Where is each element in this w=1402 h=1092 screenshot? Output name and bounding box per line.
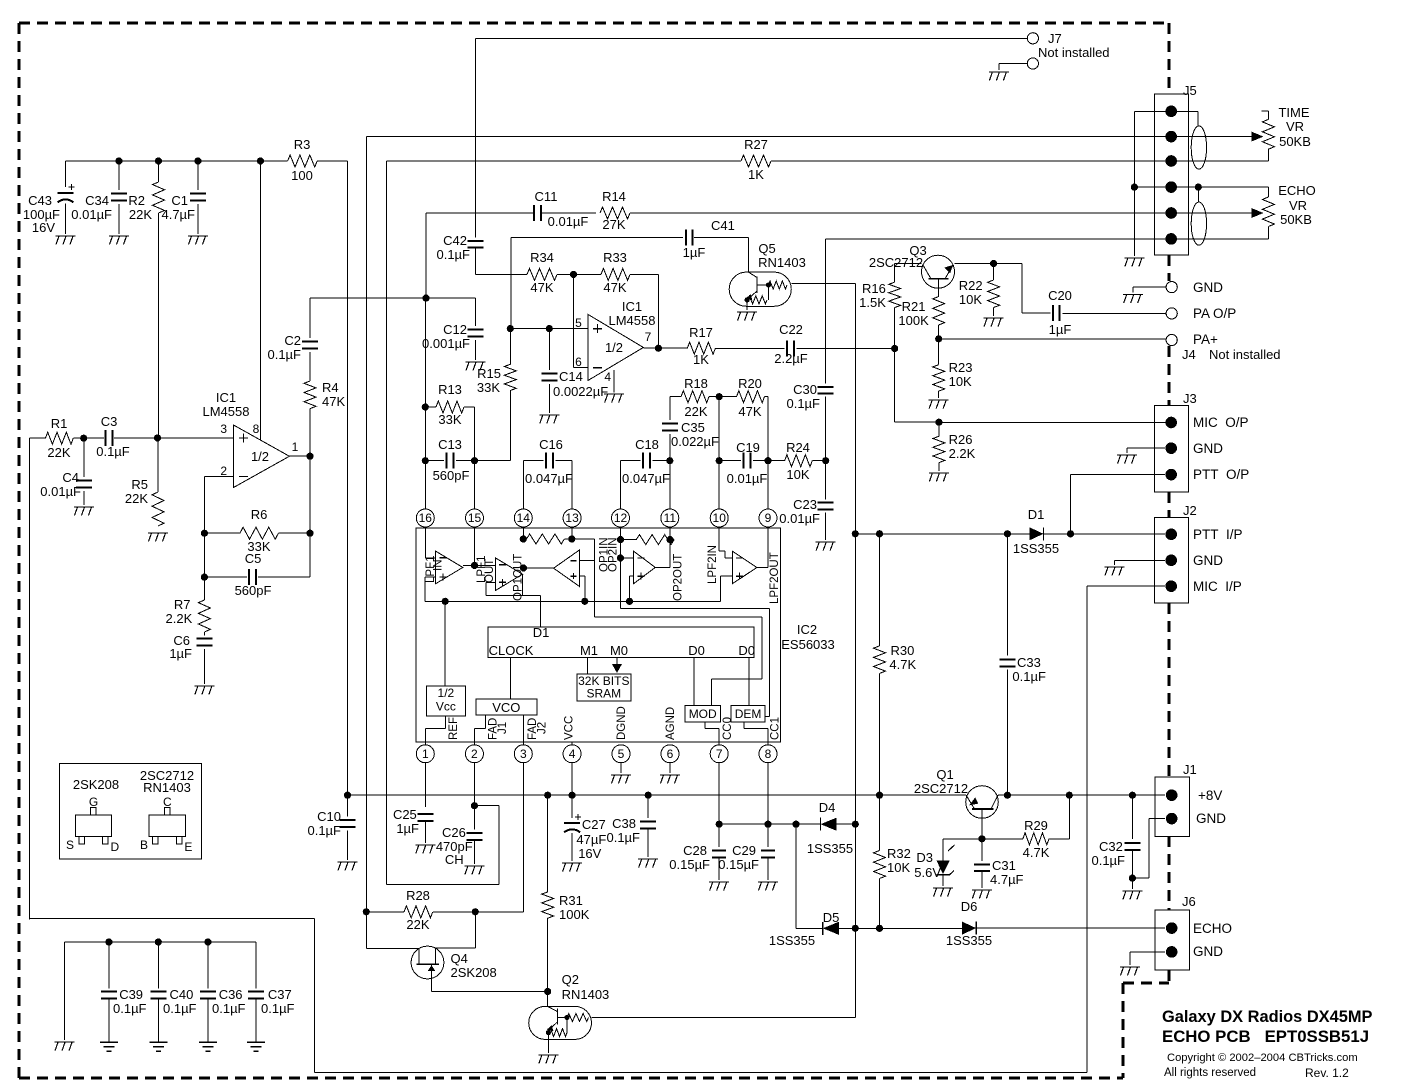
svg-text:OP2IN: OP2IN [608, 537, 620, 572]
svg-text:0.15µF: 0.15µF [718, 857, 759, 872]
wire +in line [510, 328, 588, 330]
border dashed right segment above J5 [1168, 23, 1171, 94]
wire Q1 base drop [981, 818, 983, 839]
wire amp3 -in feed [572, 539, 595, 617]
svg-text:14: 14 [517, 511, 531, 525]
wire pin16 column [424, 298, 426, 510]
wire R1 left corner [29, 438, 45, 919]
svg-text:100K: 100K [898, 313, 929, 328]
resistor R16 [859, 281, 901, 310]
wire R17 to C22 [715, 348, 784, 350]
svg-text:R34: R34 [530, 250, 554, 265]
svg-text:VCO: VCO [492, 700, 520, 715]
wire D0b to DEM [748, 658, 750, 706]
ground below C25 [415, 845, 435, 854]
svg-text:+8V: +8V [1198, 788, 1222, 803]
ground below C28 [709, 882, 729, 891]
wire pin4 to rail [571, 762, 573, 795]
potentiometer TIME VR [1262, 111, 1275, 161]
wire R1 to C3 [73, 437, 83, 439]
svg-text:R21: R21 [902, 299, 926, 314]
node amp3 out junction [520, 564, 527, 571]
wire GND terminal stub [1133, 287, 1166, 292]
IC2 LPF1 out wire [463, 565, 496, 567]
Q4 label [451, 951, 497, 980]
svg-text:IC1: IC1 [216, 390, 236, 405]
svg-text:0.047µF: 0.047µF [622, 471, 670, 486]
wire C32 ground stub [1131, 878, 1133, 889]
svg-text:AGND: AGND [665, 707, 677, 740]
svg-text:C18: C18 [635, 437, 659, 452]
resistor R26 [933, 422, 976, 462]
svg-text:8: 8 [253, 422, 260, 436]
J2 MIC I/P label [1193, 579, 1242, 594]
J2 GND label [1193, 553, 1223, 568]
node IC1b output junction [655, 345, 662, 352]
svg-text:C32: C32 [1099, 839, 1123, 854]
node +8V C10 junction [344, 792, 351, 799]
resistor R24 [768, 440, 826, 482]
svg-text:VR: VR [1286, 119, 1304, 134]
node -in R6 junction [201, 530, 208, 537]
resistor R33 [601, 250, 630, 295]
svg-text:C13: C13 [438, 437, 462, 452]
border dashed outline left [18, 23, 21, 1078]
resistor R34 [527, 250, 557, 295]
legend 2SK208 label [73, 777, 119, 792]
resistor R1 [45, 416, 73, 460]
node +8V C38 junction [645, 792, 652, 799]
svg-text:GND: GND [1193, 280, 1223, 295]
node IC2 pin11 internal junction [666, 526, 673, 543]
wire cap bank left drop [64, 942, 66, 1040]
svg-text:C4: C4 [62, 470, 79, 485]
border dashed notch vertical [1122, 983, 1125, 1078]
svg-text:R3: R3 [294, 137, 311, 152]
wire C3 node to IC1a +in [158, 437, 234, 439]
ground below C39 [100, 1042, 118, 1051]
J5 pin 4 dot [1165, 181, 1177, 193]
resistor R15 [477, 329, 516, 461]
resistor R14 [600, 189, 630, 232]
wire C22 to R16 node [797, 348, 895, 350]
svg-text:MIC O/P: MIC O/P [1193, 415, 1249, 430]
node R2 junction [155, 157, 162, 164]
svg-text:10K: 10K [959, 292, 982, 307]
node D4 left junction [716, 821, 723, 828]
ground below Q2 [538, 1055, 558, 1064]
capacitor C32 [1091, 795, 1140, 878]
wire pin4 stub [571, 742, 573, 746]
wire MIC O/P corner [895, 421, 939, 423]
svg-text:R1: R1 [51, 416, 68, 431]
node x=426 y=298.1 junction [422, 295, 429, 302]
ground cap bank left [55, 1042, 75, 1051]
wire J5 pin1 to ground rail [1134, 110, 1198, 112]
svg-text:M0: M0 [610, 643, 628, 658]
wire FAD J1 wrap [387, 806, 499, 885]
IC2 VCO box [476, 699, 537, 715]
J1 connector box [1155, 762, 1197, 836]
wire D5 branch drop [795, 824, 797, 928]
svg-text:C5: C5 [245, 551, 262, 566]
svg-text:IN: IN [433, 560, 445, 572]
J3 GND label [1193, 441, 1223, 456]
ground J3 [1117, 455, 1137, 464]
svg-text:C42: C42 [443, 233, 467, 248]
ground below C27 [562, 863, 582, 872]
IC2 pin2 label [488, 718, 509, 740]
wire C33 column top [1006, 534, 1008, 656]
wire amp4 +in to rail [630, 576, 634, 601]
wire pin8 column below [767, 762, 769, 824]
wire CLOCK to VCO [509, 658, 511, 699]
node R1-C3 junction [80, 435, 87, 442]
capacitor C30 [786, 382, 833, 411]
IC2 pin10 label [707, 545, 719, 584]
node ECHO x=855 junction [852, 925, 859, 932]
svg-text:C16: C16 [539, 437, 563, 452]
Q2 label [562, 972, 610, 1002]
svg-text:1SS355: 1SS355 [807, 841, 853, 856]
node D5 branch junction [792, 821, 799, 828]
TIME VR labels [1278, 105, 1310, 149]
node C40 junction [155, 938, 162, 945]
J7 labels [1038, 31, 1110, 60]
IC2 pin8 label [769, 717, 781, 740]
svg-text:MIC I/P: MIC I/P [1193, 579, 1242, 594]
ground below C6 [194, 686, 214, 695]
terminal PA+ circle [1166, 334, 1177, 345]
GND terminal label [1193, 280, 1223, 295]
wire C42 bottom corner to R34 [476, 248, 528, 275]
svg-text:Q5: Q5 [758, 241, 775, 256]
IC2 clock box labels [489, 643, 755, 658]
svg-text:J2: J2 [536, 722, 548, 734]
svg-text:Copyright © 2002–2004 CBTricks: Copyright © 2002–2004 CBTricks.com [1167, 1052, 1358, 1064]
node IC2 pin12 internal junction [617, 536, 624, 543]
svg-text:Not installed: Not installed [1038, 45, 1110, 60]
wire Q4 source to Q2 base node [431, 991, 547, 993]
svg-text:DEM: DEM [735, 707, 762, 721]
wire J7 line [476, 37, 1028, 39]
svg-text:22K: 22K [129, 207, 152, 222]
svg-text:0.047µF: 0.047µF [525, 471, 573, 486]
svg-text:11: 11 [664, 511, 677, 525]
diode D4 [807, 800, 853, 856]
wire C30 to R24 node [825, 397, 827, 461]
border dashed right segment J2 to J1 [1168, 603, 1171, 777]
rev line [1305, 1066, 1349, 1080]
svg-text:D6: D6 [961, 899, 978, 914]
Q5 label [758, 241, 806, 270]
svg-text:LM4558: LM4558 [203, 404, 250, 419]
ground below C40 [149, 1042, 167, 1051]
svg-text:PTT I/P: PTT I/P [1193, 527, 1243, 542]
IC2 pin 14 circle [514, 509, 532, 527]
node C13 right junction [471, 457, 478, 464]
wire R28 left wrap to Q4 gate [366, 912, 419, 949]
transistor Q5 [729, 272, 791, 310]
svg-text:Rev. 1.2: Rev. 1.2 [1305, 1066, 1349, 1080]
wire amp4 out to pin11 column [655, 540, 670, 568]
node C26 top junction [471, 802, 478, 809]
svg-text:CC1: CC1 [769, 717, 781, 740]
svg-text:R17: R17 [689, 325, 713, 340]
wire +8V rail right of Q1 [998, 794, 1165, 796]
diode D1 [1013, 507, 1059, 556]
resistor R4 [304, 380, 345, 456]
capacitor C3 [84, 414, 158, 459]
wire R28 right wrap to Q4 drain [436, 912, 476, 948]
node amp4 -in junction [617, 554, 624, 561]
IC2 LPF1 amp [425, 526, 463, 601]
svg-text:0.1µF: 0.1µF [606, 830, 640, 845]
node C39 junction [105, 938, 112, 945]
svg-text:R18: R18 [684, 376, 708, 391]
svg-text:D4: D4 [819, 800, 836, 815]
resistor R23 [933, 339, 973, 391]
svg-text:13: 13 [565, 511, 579, 525]
svg-text:Q2: Q2 [562, 972, 579, 987]
wire R13 right down [474, 407, 476, 461]
svg-text:2SK208: 2SK208 [73, 777, 119, 792]
svg-text:0.1µF: 0.1µF [786, 396, 820, 411]
svg-text:C30: C30 [793, 382, 817, 397]
svg-text:R16: R16 [862, 281, 886, 296]
svg-text:J3: J3 [1183, 391, 1197, 406]
IC2 amp5 (LPF2) [732, 551, 757, 584]
wire pin7 column below [718, 762, 720, 824]
svg-text:J5: J5 [1183, 83, 1197, 98]
op-amp IC1b [575, 299, 655, 381]
svg-text:3: 3 [520, 747, 527, 761]
svg-text:D0: D0 [688, 643, 705, 658]
node C3-R5 junction [154, 434, 161, 441]
svg-text:C39: C39 [119, 987, 143, 1002]
wire D0a to MOD [693, 658, 695, 706]
wire +8V rail [348, 794, 967, 796]
svg-text:B: B [140, 838, 148, 852]
IC2 box [416, 528, 781, 742]
J2 connector box [1155, 503, 1197, 603]
svg-text:4.7K: 4.7K [889, 657, 916, 672]
svg-text:33K: 33K [438, 412, 461, 427]
wire C5 right up to R6 [309, 533, 311, 577]
ground J2 [1105, 567, 1125, 576]
wire R34 to R33 [557, 273, 601, 275]
wire x=855 vertical lower [854, 534, 856, 1017]
svg-text:1µF: 1µF [396, 821, 419, 836]
node +8V pin4 junction [569, 792, 576, 799]
node C1 junction [194, 157, 201, 164]
J6 ECHO label [1193, 921, 1232, 936]
svg-text:0.001µF: 0.001µF [422, 336, 470, 351]
node Q2 base junction [544, 988, 551, 995]
svg-text:4.7µF: 4.7µF [990, 872, 1024, 887]
ground below R23 [929, 391, 949, 408]
svg-text:D1: D1 [1028, 507, 1045, 522]
IC2 internal resistor 2 [621, 526, 675, 544]
svg-text:10: 10 [713, 511, 727, 525]
ground below C29 [758, 882, 778, 891]
J2 PTT I/P label [1193, 527, 1243, 542]
svg-text:3: 3 [220, 422, 227, 436]
svg-text:GND: GND [1193, 553, 1223, 568]
node IC2 pin13 internal junction [568, 526, 575, 542]
IC2 amp2 feedback [486, 574, 541, 595]
ECHO VR labels [1278, 183, 1316, 227]
svg-text:22K: 22K [125, 491, 148, 506]
svg-text:2.2K: 2.2K [166, 611, 193, 626]
capacitor C27 [564, 795, 606, 861]
svg-text:D0: D0 [738, 643, 755, 658]
wire amp5 out to pin9 [757, 526, 768, 567]
svg-text:IC1: IC1 [622, 299, 642, 314]
svg-text:0.15µF: 0.15µF [669, 857, 710, 872]
IC2 pin 3 circle [514, 745, 532, 763]
svg-text:ECHO: ECHO [1278, 183, 1316, 198]
ground below C36 [199, 1042, 217, 1051]
svg-text:47µF: 47µF [576, 832, 606, 847]
wire halfvcc to pin1 [425, 716, 445, 745]
ground GND terminal [1123, 295, 1143, 304]
IC2 pin14 label [513, 554, 525, 601]
capacitor C33 [999, 655, 1046, 684]
IC2 amp3 (left pointing) [554, 550, 580, 586]
svg-text:R32: R32 [887, 846, 911, 861]
J3 MIC O/P label [1193, 415, 1249, 430]
svg-text:0.1µF: 0.1µF [267, 347, 301, 362]
wire IC1a output [289, 455, 310, 457]
svg-text:C35: C35 [681, 420, 705, 435]
wire R21 to PA+ node [938, 325, 940, 339]
svg-text:OUT: OUT [484, 559, 496, 583]
border dashed right segment J1 to J6 [1168, 836, 1171, 910]
ground below C37 [247, 1042, 265, 1051]
wire cap bank rail [65, 941, 257, 943]
svg-text:R14: R14 [602, 189, 626, 204]
svg-text:1µF: 1µF [683, 245, 706, 260]
svg-text:0.1µF: 0.1µF [307, 823, 341, 838]
wire J5 ground vertical [1133, 111, 1135, 256]
capacitor C34 [71, 161, 127, 234]
svg-text:0.1µF: 0.1µF [96, 444, 130, 459]
svg-text:RN1403: RN1403 [143, 780, 191, 795]
svg-text:R30: R30 [891, 643, 915, 658]
node R13 left junction [422, 403, 429, 410]
capacitor C10 [307, 795, 355, 860]
svg-text:8: 8 [765, 747, 772, 761]
svg-text:C11: C11 [535, 189, 558, 204]
svg-text:R27: R27 [744, 137, 768, 152]
wire pin4 to ECHO VR top [1198, 186, 1268, 188]
svg-text:C19: C19 [736, 440, 760, 455]
wire IC2 vref rail [425, 600, 720, 602]
IC2 pin 9 circle [759, 509, 777, 527]
capacitor C23 [779, 497, 833, 526]
capacitor C11 [534, 189, 596, 229]
wire D6 to J6 [976, 927, 1165, 929]
capacitor C36 [200, 942, 246, 1042]
IC2 pin3 label [527, 718, 548, 740]
wire VCO to pin3 [522, 716, 524, 745]
IC2 DEM box [731, 706, 765, 722]
svg-text:10K: 10K [786, 467, 809, 482]
resistor R22 [959, 264, 1000, 308]
connector J7 ground circle [1027, 58, 1038, 69]
svg-text:R6: R6 [251, 507, 268, 522]
wire C23 to ground [825, 512, 827, 540]
svg-text:C36: C36 [219, 987, 243, 1002]
svg-text:7: 7 [645, 330, 652, 344]
wire pin9 column [767, 461, 769, 510]
svg-text:C14: C14 [559, 369, 583, 384]
svg-text:C22: C22 [779, 322, 803, 337]
node C29 top junction [764, 821, 771, 828]
svg-text:C20: C20 [1048, 288, 1072, 303]
J5 pin 2 dot [1165, 131, 1177, 143]
node amp4 rail junction [626, 598, 633, 605]
J2 pin GND dot [1165, 555, 1177, 567]
wire D1 to J2 [1044, 533, 1166, 535]
node C36 junction [204, 938, 211, 945]
Q3 label [869, 243, 927, 270]
rights line [1164, 1067, 1256, 1079]
svg-text:C43: C43 [28, 193, 52, 208]
PA+ label [1193, 332, 1218, 347]
svg-text:R24: R24 [786, 440, 810, 455]
ground below C43 [56, 236, 76, 245]
wire R33 right corner down [630, 274, 658, 348]
wire pin8 drop to IC1 [260, 161, 262, 440]
svg-text:R29: R29 [1024, 818, 1048, 833]
svg-text:1: 1 [292, 440, 299, 454]
node R18-R20 junction [716, 393, 723, 400]
node IC1 pin8 junction [257, 157, 264, 164]
ground below C12 [466, 362, 486, 371]
svg-text:0.01µF: 0.01µF [779, 511, 820, 526]
wire C13 right to R15 [475, 460, 511, 462]
ground below R5 [148, 533, 168, 542]
node C18 right junction [666, 457, 673, 464]
node IC1a output junction [306, 453, 313, 460]
ground below R22 [984, 318, 1004, 327]
svg-text:PA+: PA+ [1193, 332, 1218, 347]
legend box [59, 764, 201, 859]
ground below C31 [972, 890, 992, 899]
PA O/P label [1193, 306, 1236, 321]
border dashed right segment J3 to J2 [1168, 492, 1171, 517]
wire R28 right to pin3 [475, 911, 523, 913]
node C22 right junction [891, 345, 898, 352]
transistor Q3 [922, 255, 955, 288]
wire R27 to J5 pin3 [771, 160, 1268, 162]
IC2 half-vcc box [426, 686, 465, 716]
capacitor C14 [541, 329, 608, 413]
diode D5 [769, 910, 839, 948]
node J5 pin4 cable junction [1195, 184, 1202, 191]
ground below C32 [1122, 891, 1142, 900]
J6 pin GND dot [1166, 946, 1178, 958]
svg-text:R26: R26 [949, 432, 973, 447]
svg-text:R13: R13 [438, 382, 462, 397]
node R26 top junction [935, 419, 942, 426]
capacitor C12 [422, 298, 483, 360]
svg-text:2.2K: 2.2K [949, 446, 976, 461]
svg-text:R31: R31 [559, 893, 583, 908]
ground below C23 [816, 542, 836, 551]
